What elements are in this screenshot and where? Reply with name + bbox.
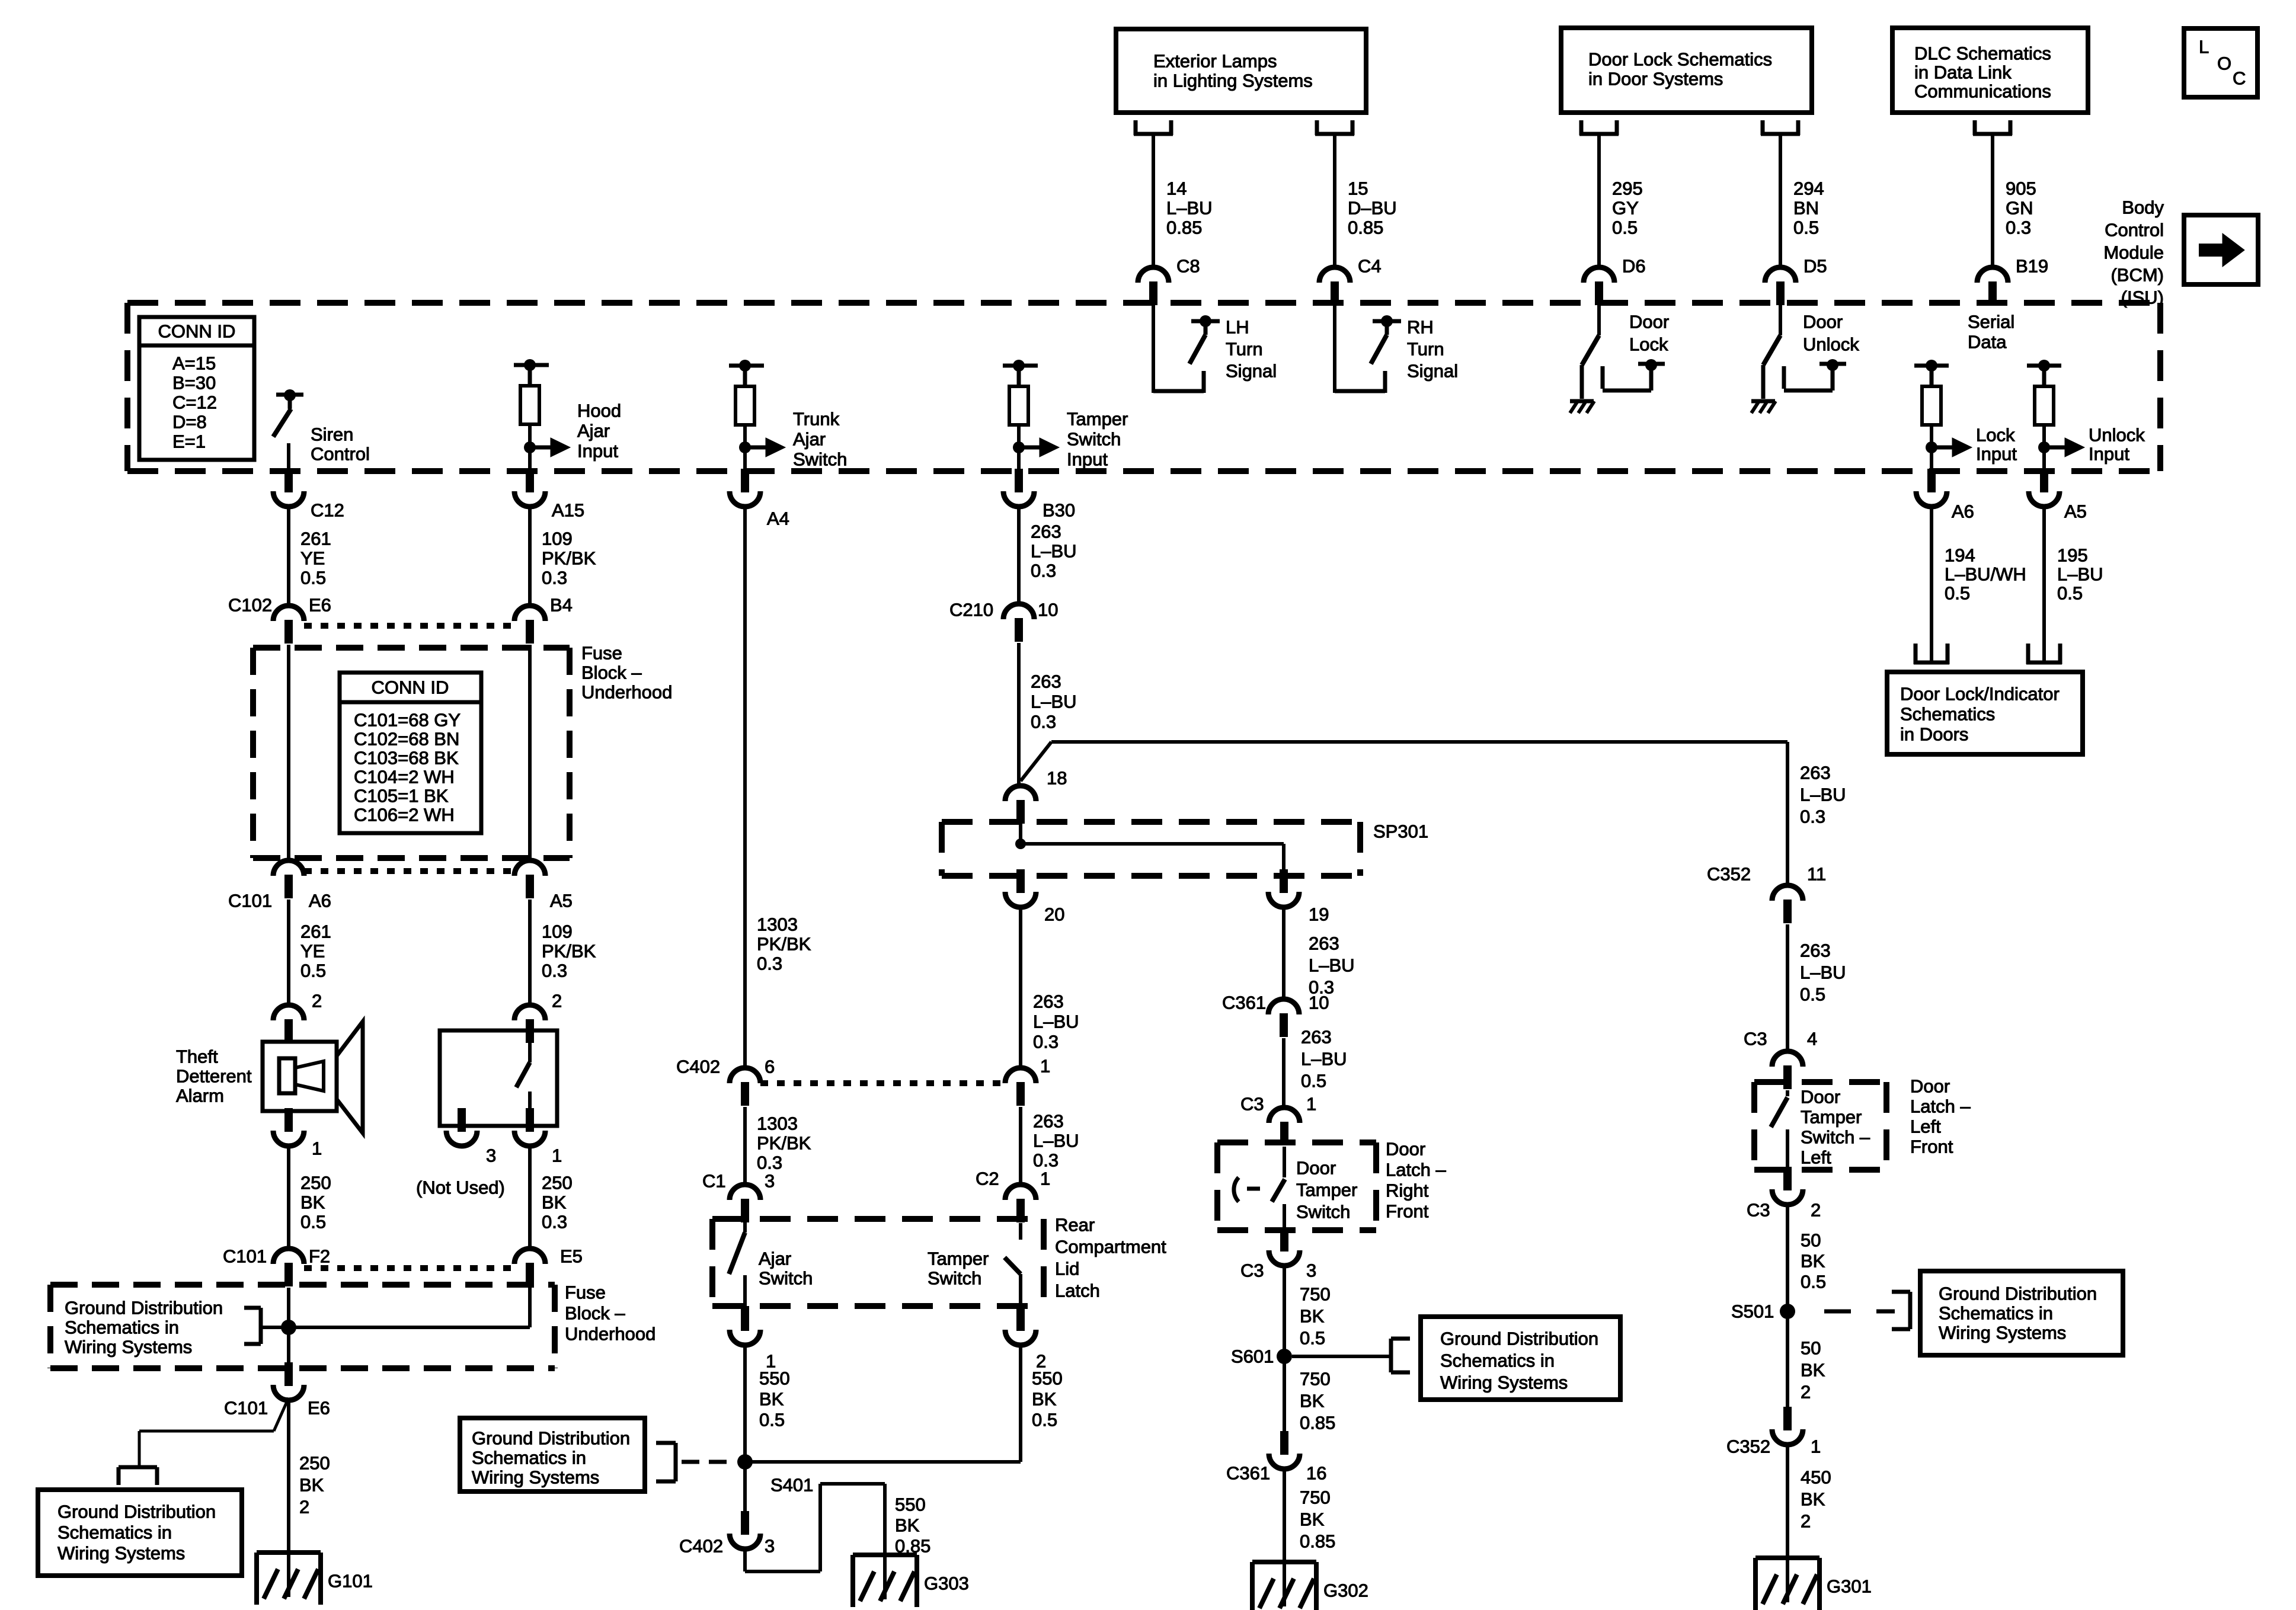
svg-text:Left: Left xyxy=(1801,1147,1831,1168)
svg-text:1303: 1303 xyxy=(757,914,798,935)
svg-text:A5: A5 xyxy=(2064,501,2087,522)
svg-text:BK: BK xyxy=(1801,1251,1825,1272)
svg-text:Front: Front xyxy=(1386,1201,1429,1222)
svg-text:0.85: 0.85 xyxy=(1166,217,1202,238)
svg-text:C361: C361 xyxy=(1226,1463,1270,1484)
svg-text:Wiring Systems: Wiring Systems xyxy=(65,1337,192,1358)
svg-text:C3: C3 xyxy=(1240,1260,1264,1281)
svg-text:109: 109 xyxy=(542,529,573,549)
svg-text:Turn: Turn xyxy=(1407,339,1444,360)
svg-text:PK/BK: PK/BK xyxy=(757,934,811,955)
svg-text:0.5: 0.5 xyxy=(1612,217,1638,238)
svg-text:E=1: E=1 xyxy=(172,431,206,452)
svg-text:Input: Input xyxy=(577,441,618,462)
svg-text:0.5: 0.5 xyxy=(759,1410,785,1430)
svg-text:194: 194 xyxy=(1945,545,1975,566)
svg-text:C: C xyxy=(2233,68,2246,89)
svg-text:10: 10 xyxy=(1038,600,1058,620)
svg-text:2: 2 xyxy=(552,991,562,1012)
svg-text:C103=68 BK: C103=68 BK xyxy=(354,748,459,769)
svg-text:YE: YE xyxy=(300,548,325,569)
svg-text:0.5: 0.5 xyxy=(2057,583,2083,604)
svg-text:C2: C2 xyxy=(976,1169,999,1189)
svg-text:1: 1 xyxy=(1306,1094,1316,1115)
svg-text:C361: C361 xyxy=(1222,993,1266,1013)
svg-text:0.5: 0.5 xyxy=(1801,1272,1826,1292)
svg-text:Tamper: Tamper xyxy=(1801,1107,1862,1128)
svg-text:263: 263 xyxy=(1033,991,1064,1012)
svg-text:Schematics in: Schematics in xyxy=(1939,1303,2053,1324)
svg-text:Fuse: Fuse xyxy=(581,643,622,664)
svg-text:3: 3 xyxy=(765,1536,775,1557)
svg-text:A5: A5 xyxy=(550,891,573,911)
svg-text:C1: C1 xyxy=(702,1171,726,1192)
svg-text:PK/BK: PK/BK xyxy=(542,941,596,962)
svg-text:Door Lock Schematics: Door Lock Schematics xyxy=(1588,49,1772,70)
svg-text:1: 1 xyxy=(552,1145,562,1166)
svg-text:L–BU/WH: L–BU/WH xyxy=(1945,564,2026,585)
svg-text:C402: C402 xyxy=(676,1057,720,1077)
svg-text:Detterent: Detterent xyxy=(176,1066,252,1087)
svg-text:Ajar: Ajar xyxy=(577,421,610,441)
svg-text:A=15: A=15 xyxy=(172,353,216,374)
svg-text:Schematics in: Schematics in xyxy=(1440,1350,1555,1371)
svg-text:C3: C3 xyxy=(1744,1029,1767,1049)
svg-text:YE: YE xyxy=(300,941,325,962)
svg-text:CONN ID: CONN ID xyxy=(372,677,449,698)
svg-text:B30: B30 xyxy=(1043,500,1075,521)
svg-text:Ground Distribution: Ground Distribution xyxy=(472,1428,630,1449)
svg-text:1: 1 xyxy=(312,1138,322,1159)
svg-text:C106=2 WH: C106=2 WH xyxy=(354,805,455,825)
svg-text:BK: BK xyxy=(300,1192,325,1213)
svg-text:Control: Control xyxy=(2105,220,2164,241)
svg-text:BK: BK xyxy=(299,1475,324,1496)
svg-text:Input: Input xyxy=(1067,449,1108,470)
svg-text:A15: A15 xyxy=(552,500,584,521)
svg-text:Ajar: Ajar xyxy=(793,429,826,450)
svg-text:L–BU: L–BU xyxy=(1800,785,1846,805)
svg-text:BK: BK xyxy=(1801,1489,1825,1510)
svg-text:Door: Door xyxy=(1629,312,1669,332)
svg-text:C402: C402 xyxy=(679,1536,723,1557)
svg-text:(BCM): (BCM) xyxy=(2110,265,2164,286)
svg-text:18: 18 xyxy=(1047,768,1067,789)
svg-text:20: 20 xyxy=(1044,904,1064,925)
svg-text:C12: C12 xyxy=(311,500,344,521)
svg-text:263: 263 xyxy=(1309,933,1339,954)
svg-text:C=12: C=12 xyxy=(172,392,217,413)
svg-text:Door: Door xyxy=(1296,1158,1336,1179)
svg-text:0.5: 0.5 xyxy=(300,961,326,981)
svg-text:BK: BK xyxy=(1032,1389,1057,1410)
svg-text:D5: D5 xyxy=(1803,256,1827,277)
svg-text:0.5: 0.5 xyxy=(1032,1410,1057,1430)
svg-text:D–BU: D–BU xyxy=(1348,198,1397,219)
svg-text:263: 263 xyxy=(1800,940,1831,961)
svg-text:L–BU: L–BU xyxy=(1800,962,1846,983)
svg-text:550: 550 xyxy=(895,1494,926,1515)
svg-text:A4: A4 xyxy=(767,508,789,529)
svg-text:in Lighting Systems: in Lighting Systems xyxy=(1153,71,1313,91)
svg-text:CONN ID: CONN ID xyxy=(158,321,236,342)
svg-text:3: 3 xyxy=(1306,1260,1316,1281)
svg-text:263: 263 xyxy=(1301,1027,1332,1048)
svg-text:Tamper: Tamper xyxy=(928,1249,989,1269)
svg-text:Switch: Switch xyxy=(1296,1202,1350,1222)
svg-text:0.3: 0.3 xyxy=(2006,217,2031,238)
svg-text:BN: BN xyxy=(1793,198,1819,219)
svg-text:F2: F2 xyxy=(309,1246,330,1267)
svg-text:Unlock: Unlock xyxy=(2089,425,2145,446)
svg-text:261: 261 xyxy=(300,529,331,549)
svg-text:Body: Body xyxy=(2122,197,2164,218)
svg-text:750: 750 xyxy=(1300,1284,1331,1305)
svg-text:L–BU: L–BU xyxy=(1033,1131,1079,1151)
svg-text:C3: C3 xyxy=(1747,1200,1770,1221)
svg-text:11: 11 xyxy=(1807,864,1826,885)
svg-text:D6: D6 xyxy=(1622,256,1646,277)
svg-text:Exterior Lamps: Exterior Lamps xyxy=(1153,51,1277,72)
svg-text:0.5: 0.5 xyxy=(1301,1071,1326,1092)
svg-text:BK: BK xyxy=(542,1192,567,1213)
svg-text:C352: C352 xyxy=(1726,1436,1770,1457)
svg-text:GN: GN xyxy=(2006,198,2033,219)
svg-text:2: 2 xyxy=(312,991,322,1012)
svg-text:261: 261 xyxy=(300,921,331,942)
svg-text:Signal: Signal xyxy=(1226,361,1277,382)
svg-text:0.85: 0.85 xyxy=(1300,1413,1335,1433)
svg-text:G301: G301 xyxy=(1827,1576,1872,1597)
svg-text:263: 263 xyxy=(1031,671,1061,692)
svg-text:250: 250 xyxy=(299,1453,330,1474)
svg-text:L–BU: L–BU xyxy=(1031,541,1077,562)
svg-text:BK: BK xyxy=(1801,1360,1825,1381)
svg-text:750: 750 xyxy=(1300,1369,1331,1390)
svg-text:Door: Door xyxy=(1801,1087,1840,1108)
svg-text:B4: B4 xyxy=(550,595,573,616)
svg-text:16: 16 xyxy=(1306,1463,1326,1484)
svg-text:Theft: Theft xyxy=(176,1046,218,1067)
svg-text:Schematics: Schematics xyxy=(1900,704,1995,725)
svg-text:Input: Input xyxy=(1976,444,2017,465)
svg-text:Input: Input xyxy=(2089,444,2129,465)
svg-text:Left: Left xyxy=(1910,1116,1941,1137)
svg-text:BK: BK xyxy=(1300,1391,1325,1411)
svg-text:0.5: 0.5 xyxy=(1800,984,1825,1005)
svg-text:B=30: B=30 xyxy=(172,373,216,393)
svg-text:in Door Systems: in Door Systems xyxy=(1588,69,1723,89)
svg-text:Latch –: Latch – xyxy=(1386,1160,1446,1180)
svg-text:0.3: 0.3 xyxy=(1033,1150,1059,1171)
svg-text:550: 550 xyxy=(759,1368,790,1389)
svg-text:Fuse: Fuse xyxy=(565,1282,606,1303)
svg-text:Tamper: Tamper xyxy=(1067,409,1128,430)
svg-text:Door: Door xyxy=(1386,1139,1425,1160)
svg-text:Switch: Switch xyxy=(1067,429,1121,450)
svg-text:Lock: Lock xyxy=(1976,425,2015,446)
svg-text:Door: Door xyxy=(1910,1076,1950,1097)
svg-text:50: 50 xyxy=(1801,1338,1821,1359)
svg-text:263: 263 xyxy=(1033,1111,1064,1132)
svg-text:1: 1 xyxy=(1040,1169,1050,1189)
svg-text:250: 250 xyxy=(300,1173,331,1193)
svg-text:Rear: Rear xyxy=(1055,1215,1095,1235)
svg-text:Lock: Lock xyxy=(1629,334,1668,355)
svg-text:L: L xyxy=(2199,37,2209,57)
svg-text:Underhood: Underhood xyxy=(581,682,672,703)
svg-text:Turn: Turn xyxy=(1226,339,1263,360)
svg-text:C102: C102 xyxy=(228,595,272,616)
svg-text:Door Lock/Indicator: Door Lock/Indicator xyxy=(1900,684,2060,705)
svg-text:L–BU: L–BU xyxy=(1166,198,1213,219)
svg-text:1: 1 xyxy=(1811,1436,1821,1457)
svg-text:263: 263 xyxy=(1031,521,1061,542)
svg-text:15: 15 xyxy=(1348,178,1368,199)
svg-text:D=8: D=8 xyxy=(172,412,207,433)
svg-text:LH: LH xyxy=(1226,317,1249,338)
svg-text:C105=1 BK: C105=1 BK xyxy=(354,786,449,806)
svg-text:G101: G101 xyxy=(328,1571,373,1592)
svg-text:0.85: 0.85 xyxy=(1300,1531,1335,1552)
svg-text:S501: S501 xyxy=(1731,1301,1774,1322)
svg-text:2: 2 xyxy=(1801,1382,1811,1403)
svg-text:Communications: Communications xyxy=(1914,81,2051,102)
svg-text:0.5: 0.5 xyxy=(300,1212,326,1233)
svg-text:A6: A6 xyxy=(309,891,331,911)
svg-text:Schematics in: Schematics in xyxy=(65,1317,179,1338)
svg-text:0.3: 0.3 xyxy=(757,1153,782,1173)
svg-text:B19: B19 xyxy=(2016,256,2048,277)
svg-text:O: O xyxy=(2217,53,2231,74)
svg-text:263: 263 xyxy=(1800,763,1831,783)
svg-text:0.3: 0.3 xyxy=(542,1212,567,1233)
svg-text:0.3: 0.3 xyxy=(1033,1032,1059,1052)
svg-text:L–BU: L–BU xyxy=(1033,1012,1079,1032)
svg-text:905: 905 xyxy=(2006,178,2036,199)
svg-text:Switch: Switch xyxy=(793,449,847,470)
svg-text:Block –: Block – xyxy=(581,662,642,683)
svg-text:109: 109 xyxy=(542,921,573,942)
svg-text:E5: E5 xyxy=(560,1246,583,1267)
svg-text:Latch –: Latch – xyxy=(1910,1096,1971,1117)
svg-text:Block –: Block – xyxy=(565,1303,625,1324)
svg-text:L–BU: L–BU xyxy=(1301,1049,1347,1070)
svg-text:C8: C8 xyxy=(1176,256,1200,277)
svg-text:1: 1 xyxy=(1040,1056,1050,1077)
svg-text:G302: G302 xyxy=(1323,1580,1368,1601)
svg-text:in Data Link: in Data Link xyxy=(1914,62,2012,83)
svg-text:Underhood: Underhood xyxy=(565,1324,655,1345)
svg-text:450: 450 xyxy=(1801,1467,1831,1488)
svg-text:4: 4 xyxy=(1807,1029,1817,1049)
svg-text:G303: G303 xyxy=(924,1573,969,1594)
svg-text:Wiring Systems: Wiring Systems xyxy=(1440,1372,1568,1393)
svg-text:Ground Distribution: Ground Distribution xyxy=(57,1502,216,1522)
svg-text:C101=68 GY: C101=68 GY xyxy=(354,710,461,731)
svg-text:C4: C4 xyxy=(1358,256,1382,277)
svg-text:19: 19 xyxy=(1309,904,1329,925)
svg-text:Siren: Siren xyxy=(311,424,353,445)
svg-text:0.3: 0.3 xyxy=(542,961,567,981)
svg-text:RH: RH xyxy=(1407,317,1434,338)
svg-text:L–BU: L–BU xyxy=(1031,692,1077,712)
svg-text:PK/BK: PK/BK xyxy=(542,548,596,569)
svg-text:C352: C352 xyxy=(1707,864,1751,885)
svg-text:Compartment: Compartment xyxy=(1055,1237,1166,1257)
svg-text:S601: S601 xyxy=(1231,1346,1274,1367)
svg-text:S401: S401 xyxy=(770,1475,813,1496)
svg-text:250: 250 xyxy=(542,1173,573,1193)
svg-text:Switch: Switch xyxy=(759,1268,813,1289)
svg-text:Door: Door xyxy=(1803,312,1843,332)
svg-text:Data: Data xyxy=(1968,332,2007,353)
svg-text:10: 10 xyxy=(1309,993,1329,1013)
svg-text:Schematics in: Schematics in xyxy=(472,1448,586,1468)
svg-text:Wiring Systems: Wiring Systems xyxy=(472,1467,599,1488)
svg-text:0.3: 0.3 xyxy=(542,568,567,588)
svg-text:L–BU: L–BU xyxy=(1309,955,1355,976)
svg-text:2: 2 xyxy=(1811,1200,1821,1221)
svg-text:3: 3 xyxy=(765,1171,775,1192)
svg-text:BK: BK xyxy=(895,1515,920,1536)
svg-text:Lid: Lid xyxy=(1055,1259,1079,1279)
svg-text:C101: C101 xyxy=(224,1398,268,1419)
svg-text:C3: C3 xyxy=(1240,1094,1264,1115)
svg-text:BK: BK xyxy=(1300,1509,1325,1530)
svg-text:Serial: Serial xyxy=(1968,312,2014,332)
svg-text:195: 195 xyxy=(2057,545,2088,566)
svg-text:C210: C210 xyxy=(949,600,993,620)
svg-text:Schematics in: Schematics in xyxy=(57,1522,172,1543)
svg-text:0.5: 0.5 xyxy=(1793,217,1819,238)
svg-text:Control: Control xyxy=(311,444,370,465)
svg-text:1303: 1303 xyxy=(757,1113,798,1134)
svg-text:Wiring Systems: Wiring Systems xyxy=(57,1543,185,1564)
svg-text:14: 14 xyxy=(1166,178,1187,199)
svg-text:Hood: Hood xyxy=(577,401,621,421)
svg-text:C101: C101 xyxy=(228,891,272,911)
svg-text:Signal: Signal xyxy=(1407,361,1458,382)
svg-text:0.3: 0.3 xyxy=(757,953,782,974)
svg-text:2: 2 xyxy=(299,1497,309,1518)
svg-text:E6: E6 xyxy=(308,1398,330,1419)
svg-text:Right: Right xyxy=(1386,1180,1429,1201)
svg-text:2: 2 xyxy=(1801,1511,1811,1532)
svg-text:Switch –: Switch – xyxy=(1801,1127,1870,1148)
svg-text:Ground Distribution: Ground Distribution xyxy=(1440,1329,1598,1349)
svg-text:BK: BK xyxy=(1300,1306,1325,1327)
svg-text:DLC Schematics: DLC Schematics xyxy=(1914,43,2051,64)
svg-text:550: 550 xyxy=(1032,1368,1063,1389)
svg-text:C102=68 BN: C102=68 BN xyxy=(354,729,459,750)
svg-text:in Doors: in Doors xyxy=(1900,724,1968,745)
svg-text:L–BU: L–BU xyxy=(2057,564,2103,585)
svg-text:295: 295 xyxy=(1612,178,1643,199)
svg-text:0.3: 0.3 xyxy=(1031,712,1056,732)
svg-text:Front: Front xyxy=(1910,1137,1953,1157)
svg-text:750: 750 xyxy=(1300,1487,1331,1508)
svg-text:GY: GY xyxy=(1612,198,1639,219)
svg-text:Tamper: Tamper xyxy=(1296,1180,1357,1201)
svg-text:A6: A6 xyxy=(1952,501,1974,522)
svg-text:50: 50 xyxy=(1801,1230,1821,1251)
svg-text:C101: C101 xyxy=(223,1246,267,1267)
svg-text:0.85: 0.85 xyxy=(1348,217,1383,238)
svg-text:Latch: Latch xyxy=(1055,1281,1100,1301)
svg-text:Ajar: Ajar xyxy=(759,1249,791,1269)
svg-text:Unlock: Unlock xyxy=(1803,334,1859,355)
svg-text:6: 6 xyxy=(765,1057,775,1077)
svg-text:PK/BK: PK/BK xyxy=(757,1133,811,1154)
svg-text:E6: E6 xyxy=(309,595,331,616)
svg-text:294: 294 xyxy=(1793,178,1824,199)
svg-text:BK: BK xyxy=(759,1389,784,1410)
svg-text:(Not Used): (Not Used) xyxy=(416,1177,505,1198)
svg-text:C104=2 WH: C104=2 WH xyxy=(354,767,455,788)
svg-text:Ground Distribution: Ground Distribution xyxy=(1939,1283,2097,1304)
svg-text:Wiring Systems: Wiring Systems xyxy=(1939,1323,2066,1343)
svg-text:0.3: 0.3 xyxy=(1800,806,1825,827)
svg-text:SP301: SP301 xyxy=(1373,821,1428,842)
svg-text:Switch: Switch xyxy=(928,1268,981,1289)
svg-text:3: 3 xyxy=(486,1145,496,1166)
svg-text:0.5: 0.5 xyxy=(1300,1328,1325,1349)
svg-text:0.3: 0.3 xyxy=(1031,561,1056,581)
svg-text:0.5: 0.5 xyxy=(1945,583,1970,604)
svg-text:Ground Distribution: Ground Distribution xyxy=(65,1298,223,1318)
svg-text:Alarm: Alarm xyxy=(176,1086,224,1106)
svg-text:0.5: 0.5 xyxy=(300,568,326,588)
svg-text:Module: Module xyxy=(2103,242,2164,263)
svg-text:Trunk: Trunk xyxy=(793,409,840,430)
